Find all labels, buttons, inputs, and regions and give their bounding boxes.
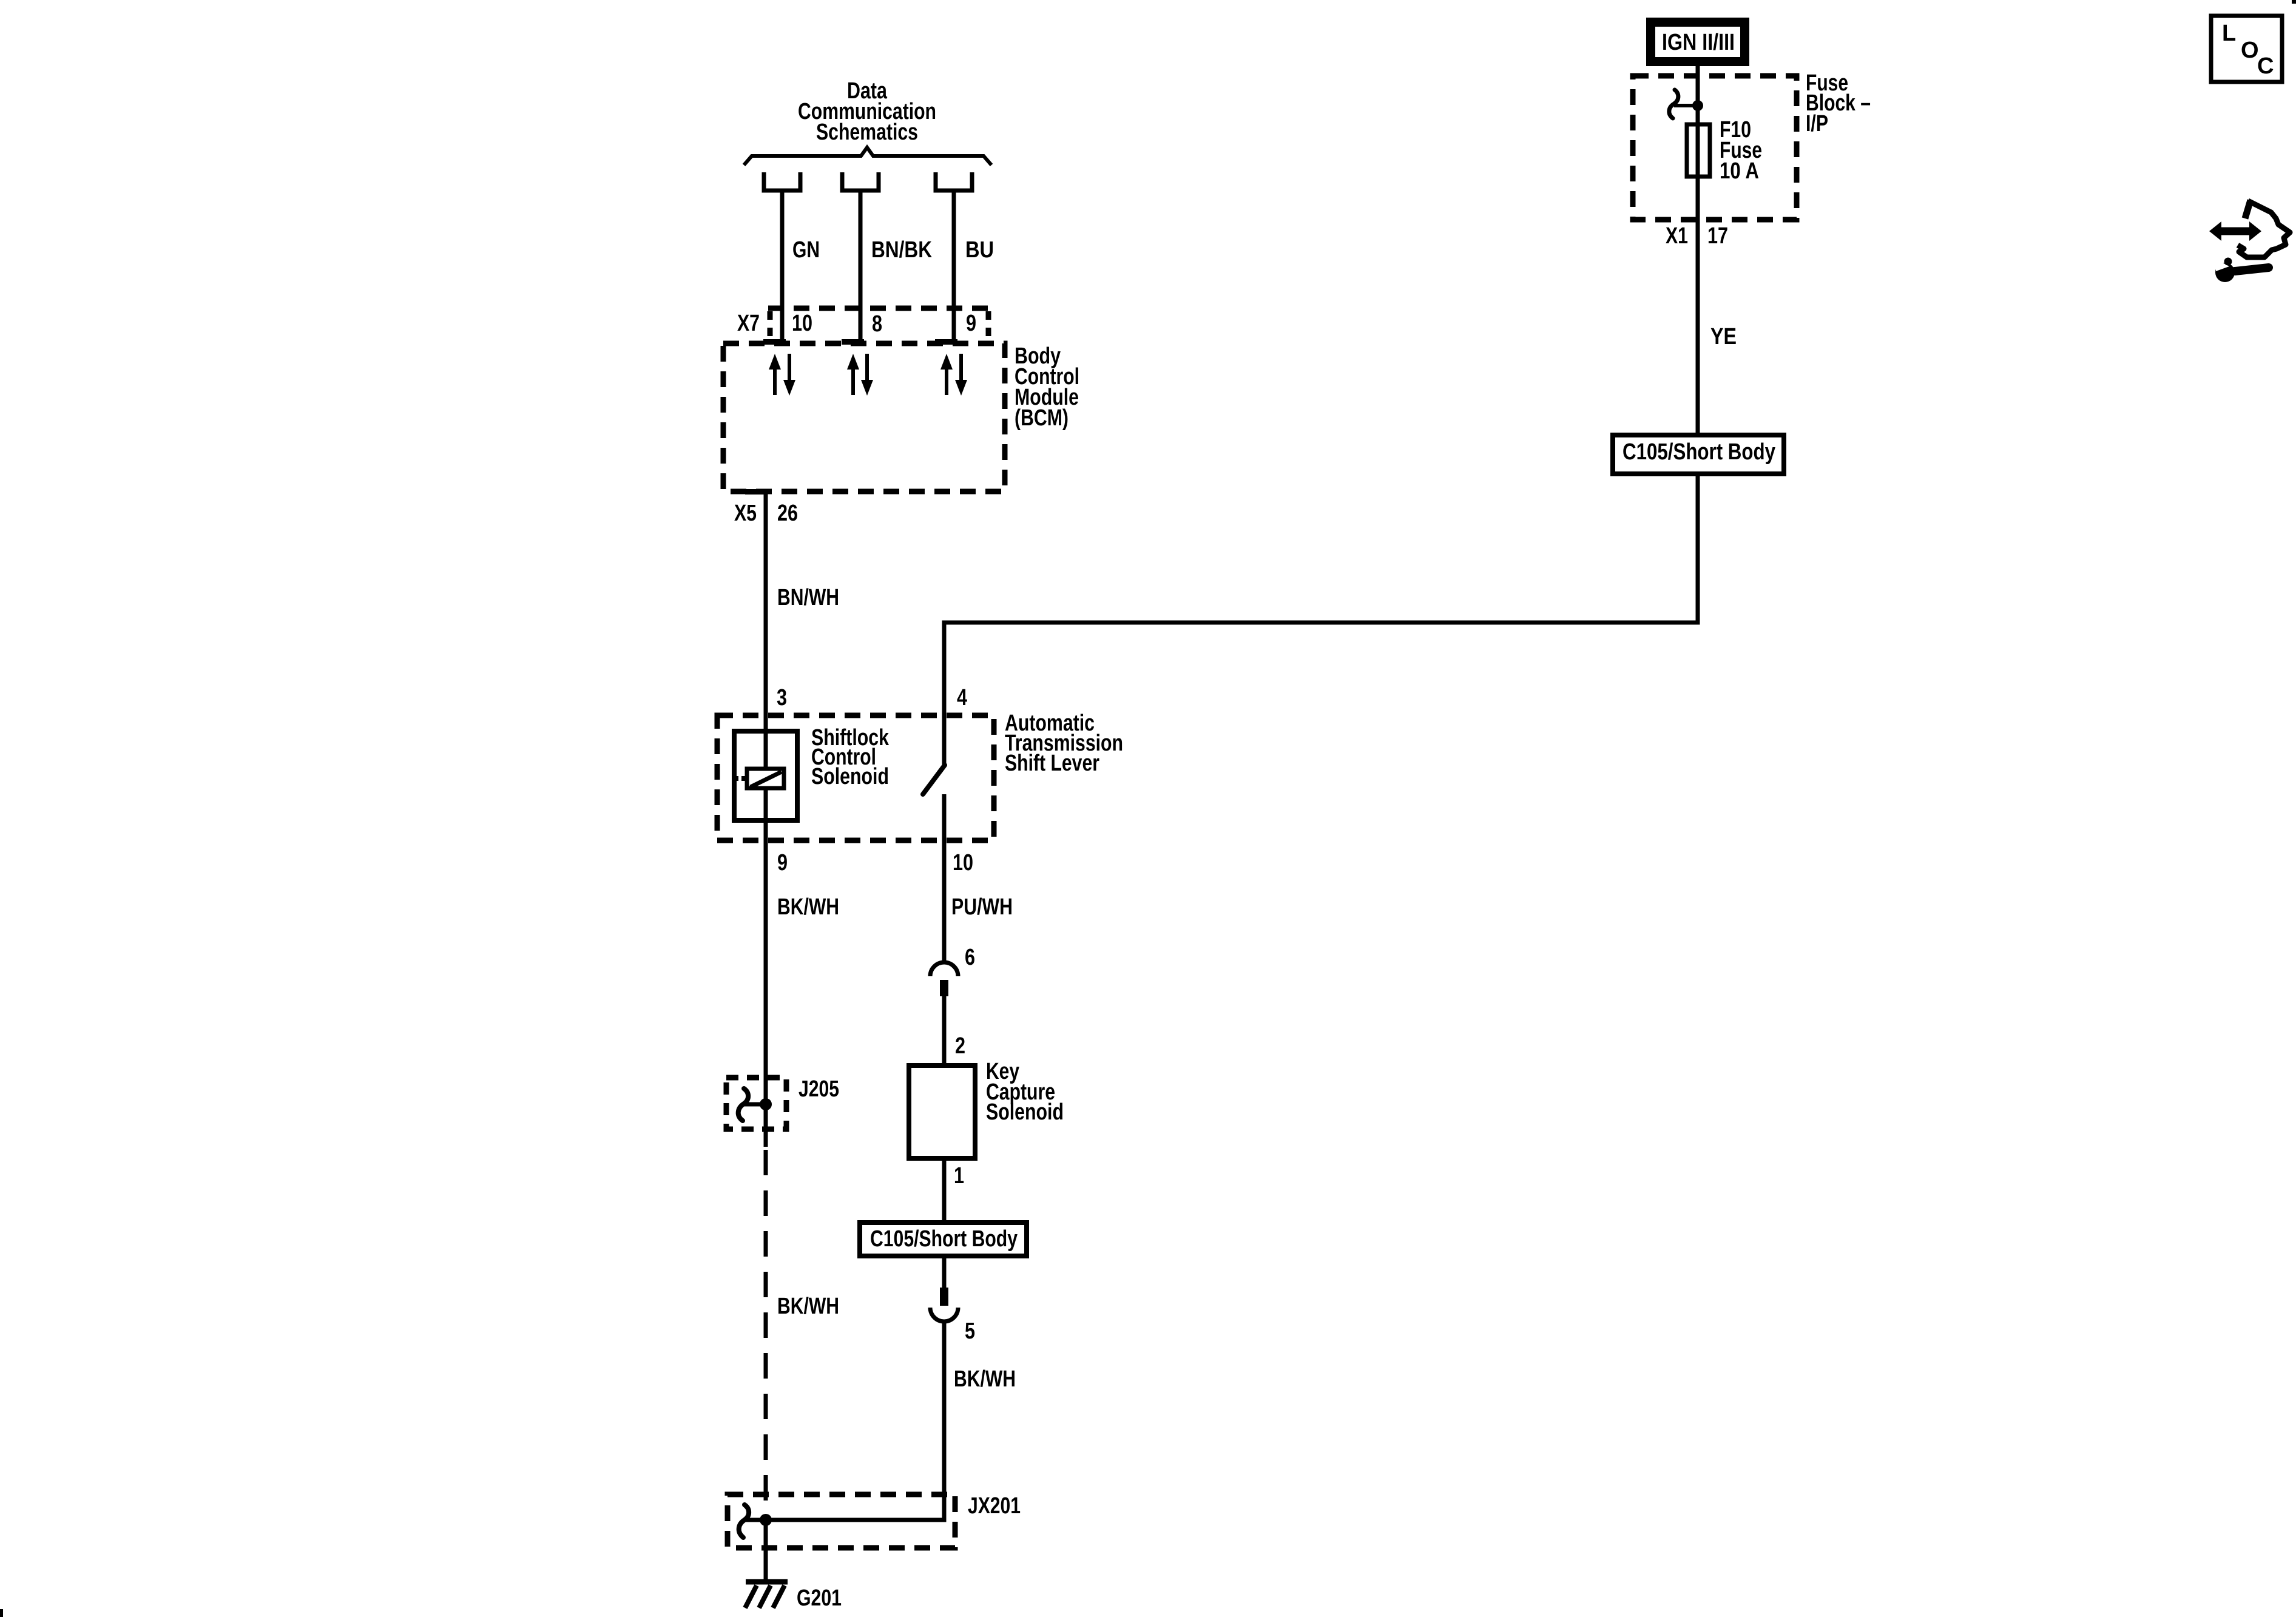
- edge mark top right: [2292, 0, 2296, 4]
- pin tick X5/26 at BCM bottom edge: [745, 489, 766, 495]
- pin tick at BCM top edge x=1572: [935, 339, 957, 345]
- svg-text:9: 9: [966, 311, 976, 336]
- shiftlock control solenoid outer box: [734, 731, 797, 820]
- connector X7 strip left dashes: [768, 311, 773, 340]
- fuse block junction dot: [1692, 100, 1703, 111]
- dashed box: shiftlock solenoid + shift lever assembly: [717, 715, 994, 840]
- connector C105/Short Body (upper) box: [1613, 435, 1784, 474]
- svg-text:3: 3: [777, 685, 787, 711]
- splice J205 dashed box: [726, 1078, 786, 1129]
- connector X7 strip right dashes: [986, 311, 991, 340]
- edge mark bottom left: [0, 1609, 3, 1617]
- fuse block I/P dashed box: [1633, 76, 1797, 220]
- svg-text:BK/WH: BK/WH: [777, 1294, 839, 1319]
- tools icon: part outline: [2238, 201, 2290, 257]
- fuse F10 symbol: [1687, 124, 1710, 177]
- svg-text:Solenoid: Solenoid: [811, 764, 889, 789]
- ground symbol G201: [746, 1579, 788, 1585]
- wire from jog corner down to switch top contact: [944, 476, 1698, 765]
- svg-text:GN: GN: [792, 237, 820, 263]
- wire YE from IGN feed through fuse to C105: [1696, 66, 1700, 433]
- solenoid coil symbol (rect with diagonal): [747, 769, 784, 788]
- tools icon: wrench: [2215, 263, 2235, 282]
- connector X7 strip top dashed line: [768, 306, 990, 311]
- connector stub (U symbol) for GN data wire: [764, 172, 800, 191]
- svg-text:BK/WH: BK/WH: [954, 1366, 1016, 1392]
- junction JX201 dashed box: [728, 1494, 955, 1548]
- svg-text:C: C: [2257, 53, 2274, 79]
- wire PU/WH from connector 6 to key capture solenoid pin 2: [942, 996, 947, 1063]
- svg-text:10: 10: [792, 311, 812, 336]
- wire below C105 to inline connector 5: [942, 1258, 947, 1289]
- wire BN/BK data wire: [859, 191, 863, 343]
- connector stub (U symbol) for BN/BK data wire: [842, 172, 879, 191]
- svg-text:BU: BU: [965, 237, 994, 263]
- wire BN/WH from BCM X5-26 down to shiftlock solenoid: [764, 491, 768, 1147]
- svg-text:10 A: 10 A: [1720, 158, 1759, 184]
- svg-text:X7: X7: [737, 311, 760, 336]
- connector stub (U symbol) for BU data wire: [936, 172, 972, 191]
- svg-text:10: 10: [953, 850, 973, 876]
- svg-text:X1: X1: [1666, 223, 1688, 249]
- power feed box IGN II/III: [1646, 18, 1749, 66]
- svg-text:Schematics: Schematics: [816, 120, 918, 145]
- dashed wire BK/WH from J205 to JX201: [764, 1150, 768, 1514]
- brace under title: [744, 147, 991, 165]
- svg-text:J205: J205: [799, 1076, 839, 1102]
- svg-text:5: 5: [965, 1318, 975, 1344]
- bidirectional data arrows at x=1406: [851, 368, 855, 395]
- bidirectional data arrows at x=1560: [945, 368, 948, 395]
- LOC reference box: [2211, 16, 2282, 82]
- svg-text:O: O: [2241, 38, 2259, 63]
- svg-text:8: 8: [872, 311, 882, 337]
- svg-text:Solenoid: Solenoid: [986, 1099, 1064, 1125]
- pin tick at BCM top edge x=1418: [842, 339, 864, 345]
- svg-text:BK/WH: BK/WH: [777, 894, 839, 920]
- svg-text:17: 17: [1707, 223, 1728, 249]
- Body Control Module (BCM) dashed box: [723, 343, 1005, 491]
- connector C105/Short Body (lower) box: [860, 1223, 1027, 1256]
- wire BU data wire: [952, 191, 956, 343]
- tick dashes from box edge to coil: [734, 776, 738, 781]
- wire GN data wire: [780, 191, 785, 343]
- wire BK/WH from connector 5 down and left to JX201 junction: [766, 1323, 944, 1520]
- wire from key capture solenoid pin 1 to C105 connector: [942, 1161, 947, 1220]
- tools icon: double arrow: [2220, 228, 2251, 235]
- svg-text:BN/WH: BN/WH: [777, 585, 839, 610]
- bidirectional data arrows at x=1277: [773, 368, 777, 395]
- svg-text:JX201: JX201: [968, 1493, 1021, 1519]
- svg-text:I/P: I/P: [1806, 111, 1828, 137]
- svg-text:9: 9: [777, 850, 788, 876]
- tools icon: part outline top stroke: [2245, 200, 2250, 218]
- switch blade: [923, 765, 945, 794]
- wire from JX201 to ground G201: [764, 1520, 768, 1581]
- svg-text:C105/Short Body: C105/Short Body: [870, 1226, 1018, 1252]
- JX201 junction dot: [760, 1514, 772, 1526]
- svg-text:(BCM): (BCM): [1015, 405, 1069, 431]
- wire from switch bottom contact down to inline connector 6: [942, 794, 947, 964]
- key capture solenoid box: [909, 1065, 975, 1158]
- J205 junction dot: [760, 1098, 772, 1110]
- fuse-block other-circuits hook symbol: [1669, 90, 1678, 118]
- inline connector 5: male pin: [940, 1288, 948, 1306]
- inline connector 5: female arc: [930, 1308, 958, 1322]
- JX201 other-circuits hook symbol: [739, 1505, 749, 1538]
- svg-text:6: 6: [965, 945, 975, 970]
- svg-text:BN/BK: BN/BK: [871, 237, 932, 263]
- inline connector 6: male pin: [940, 980, 948, 996]
- svg-text:IGN II/III: IGN II/III: [1662, 30, 1735, 55]
- svg-text:C105/Short Body: C105/Short Body: [1622, 439, 1775, 465]
- svg-text:L: L: [2222, 21, 2236, 46]
- svg-text:X5: X5: [734, 501, 757, 526]
- inline connector 6: female arc: [930, 962, 958, 976]
- svg-text:1: 1: [954, 1163, 964, 1189]
- svg-text:Shift Lever: Shift Lever: [1005, 751, 1099, 776]
- svg-text:YE: YE: [1710, 324, 1737, 349]
- pin tick at BCM top edge x=1289: [763, 339, 786, 345]
- J205 other-circuits hook symbol: [738, 1089, 748, 1121]
- svg-text:4: 4: [957, 685, 967, 711]
- svg-text:G201: G201: [797, 1585, 842, 1611]
- svg-text:2: 2: [955, 1033, 965, 1059]
- svg-text:PU/WH: PU/WH: [951, 894, 1013, 920]
- svg-text:26: 26: [777, 501, 798, 526]
